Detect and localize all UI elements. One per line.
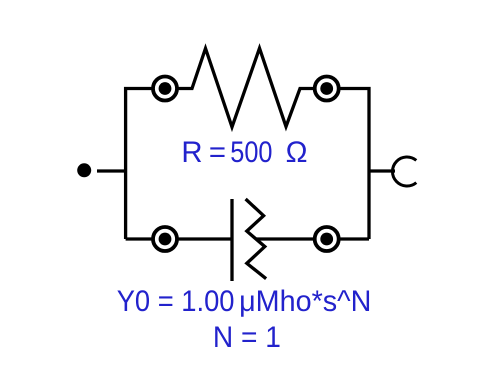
svg-text:=: = — [209, 136, 226, 169]
svg-text:R: R — [181, 136, 202, 169]
svg-text:Y0 = 1.00: Y0 = 1.00 — [117, 285, 235, 318]
svg-text:500: 500 — [230, 136, 272, 169]
svg-text:N = 1: N = 1 — [213, 321, 281, 354]
svg-text:Ω: Ω — [286, 136, 308, 169]
svg-text:μMho*s^N: μMho*s^N — [239, 285, 371, 318]
